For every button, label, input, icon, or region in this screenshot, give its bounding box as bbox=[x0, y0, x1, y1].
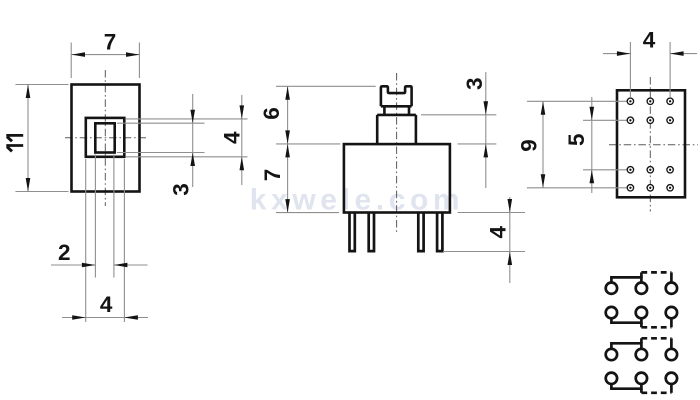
wire A3 drop bbox=[670, 272, 673, 282]
dim 3 right dimension line bbox=[192, 94, 194, 187]
pole P4 terminal D3 bbox=[666, 373, 677, 384]
dim 7 top: extension lines bbox=[71, 43, 139, 79]
actuator frame square bbox=[86, 118, 125, 157]
pin 2 bbox=[369, 213, 374, 251]
dim 3 dimension line bbox=[485, 72, 487, 188]
dim 11 arrows bbox=[26, 85, 31, 99]
wire D1-D2 solid bbox=[611, 384, 641, 389]
dim 9 arrows bbox=[541, 101, 546, 115]
wire A2-A3 dashed bbox=[641, 271, 671, 274]
switch body side outline bbox=[344, 144, 450, 212]
pole P1 terminal A1 bbox=[606, 283, 617, 294]
pin hole r3c2 bbox=[647, 167, 653, 173]
bottom view outline bbox=[617, 90, 685, 197]
svg-text:2: 2 bbox=[58, 240, 71, 265]
pole P1 terminal A2 bbox=[636, 283, 647, 294]
pole P3 terminal C3 bbox=[666, 349, 677, 360]
svg-text:4: 4 bbox=[220, 131, 245, 144]
pin 4 bbox=[437, 213, 442, 251]
dim 3 right (button height): extension lines bbox=[117, 123, 205, 152]
dim 6/7 dimension line bbox=[287, 86, 289, 212]
bottom extension lines from body bbox=[86, 155, 125, 323]
svg-text:3: 3 bbox=[462, 78, 487, 91]
stem bbox=[377, 115, 416, 144]
dim 4 right (frame height): extension lines bbox=[126, 119, 248, 157]
wire B1-B2 solid bbox=[611, 318, 641, 322]
pole P1 terminal A3 bbox=[666, 283, 677, 294]
dim 6 arrows bbox=[285, 86, 290, 100]
dim 7 top: dimension line bbox=[72, 54, 140, 56]
wire D2-D3 dashed bbox=[641, 391, 671, 394]
dim 2 arrows bbox=[82, 263, 96, 268]
dim 4 bottom dimension line bbox=[62, 317, 148, 319]
pole P4 terminal D1 bbox=[606, 373, 617, 384]
pin 1 bbox=[350, 213, 355, 251]
dim 5 extension lines bbox=[583, 120, 627, 170]
pole P2 terminal B2 bbox=[636, 307, 647, 318]
wire C2 riser bbox=[640, 338, 643, 343]
button cap with slot bbox=[381, 86, 412, 106]
pin hole r4c2 bbox=[647, 185, 653, 191]
pole P2 terminal B3 bbox=[666, 307, 677, 318]
pin hole r4c3 bbox=[667, 185, 673, 191]
pin 3 bbox=[418, 213, 423, 251]
pin holes grid bbox=[627, 98, 673, 191]
wire A1-A2 solid bbox=[611, 277, 641, 282]
svg-text:4: 4 bbox=[485, 225, 510, 238]
switch body front outline bbox=[72, 85, 140, 192]
dim 3 (stem) extension lines bbox=[421, 115, 496, 144]
svg-text:4: 4 bbox=[643, 28, 656, 53]
svg-text:7: 7 bbox=[104, 29, 117, 54]
wire B2 drop bbox=[640, 323, 643, 328]
centerline vertical bbox=[396, 73, 398, 232]
pole P2 terminal B1 bbox=[606, 307, 617, 318]
svg-text:4: 4 bbox=[100, 292, 113, 317]
dim 4 top (right view): extension lines bbox=[630, 42, 670, 97]
pole P4 terminal D2 bbox=[636, 373, 647, 384]
pin hole r1c1 bbox=[627, 98, 633, 104]
dim 5 arrows bbox=[590, 107, 595, 121]
wire B2-B3 dashed bbox=[641, 326, 671, 329]
wire D2 drop bbox=[640, 389, 643, 393]
dim 5 dimension line bbox=[591, 97, 593, 193]
svg-text:7: 7 bbox=[260, 169, 285, 182]
pin hole r3c3 bbox=[667, 167, 673, 173]
pin hole r3c1 bbox=[627, 167, 633, 173]
dim 11 dimension line bbox=[27, 85, 29, 192]
svg-text:5: 5 bbox=[564, 134, 589, 147]
pole P3 terminal C1 bbox=[606, 349, 617, 360]
wire C2-C3 dashed bbox=[641, 337, 671, 340]
svg-text:3: 3 bbox=[169, 183, 194, 196]
flange below cap bbox=[384, 106, 409, 115]
dim 4 dimension line bbox=[509, 197, 511, 283]
dim 4 bottom arrows bbox=[72, 315, 86, 320]
wire A2 riser bbox=[640, 272, 643, 277]
wire C3 drop bbox=[670, 338, 673, 349]
svg-text:6: 6 bbox=[259, 107, 284, 120]
dim 6/7 extension lines bbox=[276, 86, 376, 212]
centerline horizontal bbox=[609, 144, 698, 146]
pole P3 terminal C2 bbox=[636, 349, 647, 360]
wire C1-C2 solid bbox=[611, 343, 641, 349]
dim 4 arrows bbox=[508, 199, 513, 213]
pin hole r2c3 bbox=[667, 117, 673, 123]
cap bottom edge bbox=[381, 105, 412, 108]
dim 3 arrows bbox=[484, 101, 489, 115]
push button bbox=[95, 123, 114, 152]
pin hole r2c2 bbox=[647, 117, 653, 123]
dim 7 arrows (middle) bbox=[285, 144, 290, 158]
centerline horizontal bbox=[65, 137, 148, 139]
wire D3 riser bbox=[670, 384, 673, 393]
dim 7 arrows bbox=[72, 52, 86, 57]
wire B3 riser bbox=[670, 318, 673, 327]
dim 9 extension lines bbox=[527, 101, 627, 188]
svg-text:9: 9 bbox=[517, 139, 542, 152]
dim 2 bottom dimension line bbox=[51, 264, 148, 266]
dim 4 right arrows bbox=[240, 105, 245, 119]
dim 11 left: extension lines bbox=[15, 85, 68, 192]
dim 9 dimension line bbox=[542, 101, 544, 188]
centerline vertical bbox=[649, 77, 651, 212]
dim 4 right dimension line bbox=[241, 95, 243, 185]
dim 4 top dimension line bbox=[603, 53, 697, 55]
dim 3 right arrows bbox=[190, 110, 195, 124]
centerline vertical bbox=[104, 70, 106, 206]
pin hole r2c1 bbox=[627, 117, 633, 123]
dim 4 (pins) extension lines bbox=[443, 213, 525, 252]
dim 4 top arrows bbox=[617, 51, 631, 56]
pin hole r1c3 bbox=[667, 98, 673, 104]
pin hole r4c1 bbox=[627, 185, 633, 191]
pin hole r1c2 bbox=[647, 98, 653, 104]
dim 11 label bbox=[6, 135, 23, 151]
